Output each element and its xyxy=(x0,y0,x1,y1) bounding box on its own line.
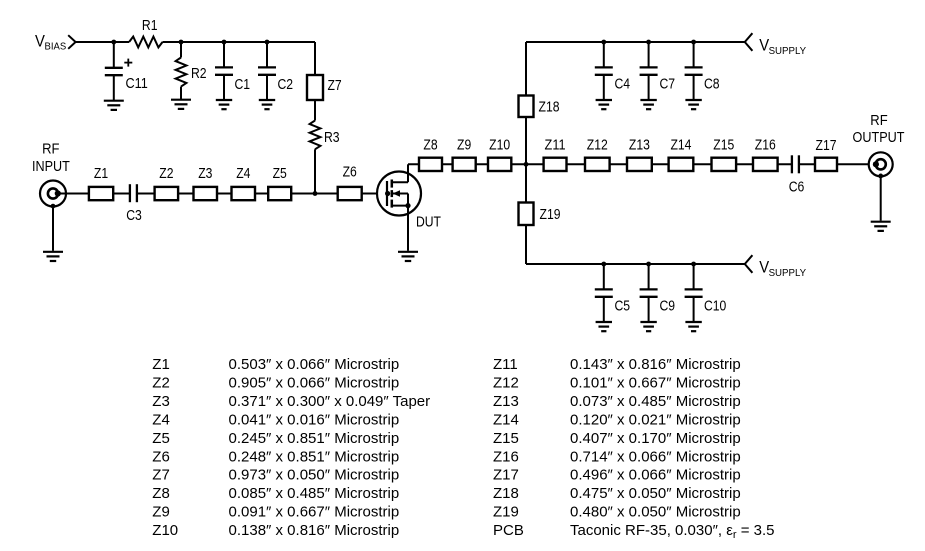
svg-text:PCB: PCB xyxy=(493,522,524,539)
svg-text:BIAS: BIAS xyxy=(45,42,67,53)
wire output row right of C6 xyxy=(799,163,876,165)
svg-text:Z1: Z1 xyxy=(94,166,108,182)
junction C1 node xyxy=(222,40,227,45)
microstrip Z18 xyxy=(519,96,534,118)
junction Z18/Z19 node xyxy=(524,162,529,167)
svg-text:0.101″ x 0.667″ Microstrip: 0.101″ x 0.667″ Microstrip xyxy=(570,375,741,392)
capacitor C4 xyxy=(595,42,613,100)
svg-text:C11: C11 xyxy=(126,76,148,92)
svg-text:Z3: Z3 xyxy=(198,166,212,182)
svg-text:C10: C10 xyxy=(704,298,726,314)
microstrip Z16 xyxy=(753,158,778,171)
DUT channel segments xyxy=(391,180,394,188)
microstrip Z14 xyxy=(669,158,694,171)
wire top VSUPPLY rail xyxy=(526,41,745,43)
svg-text:Z18: Z18 xyxy=(539,100,560,116)
wire output row left of C6 xyxy=(408,163,792,165)
svg-text:Z4: Z4 xyxy=(236,166,250,182)
RF input connector J1 xyxy=(40,181,66,207)
svg-text:0.073″ x 0.485″ Microstrip: 0.073″ x 0.485″ Microstrip xyxy=(570,393,741,410)
svg-text:Z3: Z3 xyxy=(152,393,170,410)
junction C9 node xyxy=(646,262,651,267)
wire Z19 to bottom supply rail xyxy=(525,225,527,264)
wire input connector to ground xyxy=(52,206,54,251)
svg-text:C6: C6 xyxy=(789,179,805,195)
microstrip Z17 xyxy=(815,158,837,171)
DUT source connection xyxy=(392,205,408,207)
wire input row left xyxy=(58,193,130,195)
svg-text:0.973″ x 0.050″ Microstrip: 0.973″ x 0.050″ Microstrip xyxy=(229,467,400,484)
DUT drain connection xyxy=(392,181,408,183)
junction C11 node xyxy=(111,40,116,45)
svg-text:Z6: Z6 xyxy=(343,165,357,181)
svg-text:Z11: Z11 xyxy=(493,356,518,373)
wire R3 to input line xyxy=(314,149,316,193)
microstrip Z12 xyxy=(585,158,610,171)
wire bottom VSUPPLY rail xyxy=(526,263,745,265)
microstrip Z2 xyxy=(155,187,179,200)
svg-text:C9: C9 xyxy=(660,298,676,314)
capacitor C10 xyxy=(685,264,703,322)
capacitor C7 xyxy=(640,42,658,100)
resistor R2 xyxy=(176,58,187,87)
svg-text:Z7: Z7 xyxy=(152,467,170,484)
svg-text:Z12: Z12 xyxy=(587,138,608,154)
svg-text:INPUT: INPUT xyxy=(32,159,70,175)
microstrip Z1 xyxy=(89,187,113,200)
wire supply rail to Z18 xyxy=(525,42,527,96)
svg-text:Z15: Z15 xyxy=(493,430,519,447)
svg-text:Z16: Z16 xyxy=(755,138,776,154)
junction C7 node xyxy=(646,40,651,45)
svg-text:0.120″ x 0.021″ Microstrip: 0.120″ x 0.021″ Microstrip xyxy=(570,412,741,429)
svg-text:Taconic RF-35, 0.030″, εr = 3.: Taconic RF-35, 0.030″, εr = 3.5 xyxy=(570,522,775,541)
DUT gate bar xyxy=(386,181,388,206)
svg-text:Z2: Z2 xyxy=(159,166,173,182)
wire output connector to ground xyxy=(880,177,882,221)
ground R2 xyxy=(171,100,191,109)
svg-text:Z14: Z14 xyxy=(670,138,691,154)
ground C1 xyxy=(216,100,232,109)
svg-text:0.475″ x 0.050″ Microstrip: 0.475″ x 0.050″ Microstrip xyxy=(570,485,741,502)
wire VBIAS rail left xyxy=(76,41,130,43)
svg-text:R1: R1 xyxy=(142,18,158,34)
microstrip Z19 xyxy=(519,203,534,226)
resistor R2 lead lower xyxy=(180,87,182,100)
ground RF output xyxy=(871,222,891,231)
microstrip Z7 xyxy=(307,75,323,100)
svg-text:Z17: Z17 xyxy=(816,138,837,154)
svg-text:Z12: Z12 xyxy=(493,375,519,392)
svg-text:0.905″ x 0.066″ Microstrip: 0.905″ x 0.066″ Microstrip xyxy=(229,375,400,392)
microstrip Z10 xyxy=(488,158,511,171)
capacitor C3 xyxy=(129,184,131,202)
svg-text:0.371″ x 0.300″ x 0.049″ Taper: 0.371″ x 0.300″ x 0.049″ Taper xyxy=(229,393,431,410)
svg-text:0.714″ x 0.066″ Microstrip: 0.714″ x 0.066″ Microstrip xyxy=(570,448,741,465)
VBIAS terminal chevron xyxy=(68,35,75,49)
svg-text:V: V xyxy=(35,32,45,50)
microstrip Z11 xyxy=(544,158,567,171)
microstrip Z15 xyxy=(712,158,737,171)
svg-text:Z14: Z14 xyxy=(493,412,519,429)
svg-text:Z19: Z19 xyxy=(493,504,519,521)
VSUPPLY terminal chevron bottom xyxy=(745,255,753,273)
svg-text:Z13: Z13 xyxy=(629,138,650,154)
capacitor C5 xyxy=(595,264,613,322)
svg-text:Z5: Z5 xyxy=(273,166,287,182)
svg-text:C1: C1 xyxy=(235,77,251,93)
svg-text:Z7: Z7 xyxy=(328,78,342,94)
wire VBIAS rail right xyxy=(163,41,316,43)
resistor R2 lead xyxy=(180,42,182,58)
svg-text:Z1: Z1 xyxy=(152,356,170,373)
junction DUT source xyxy=(405,203,410,208)
junction DUT gate xyxy=(385,191,390,196)
junction C10 node xyxy=(691,262,696,267)
ground DUT xyxy=(398,252,418,261)
DUT body arrow xyxy=(393,193,409,195)
junction C2 node xyxy=(265,40,270,45)
svg-text:C2: C2 xyxy=(278,77,294,93)
wire Z18 to Z19 through node xyxy=(525,117,527,203)
svg-text:Z5: Z5 xyxy=(152,430,170,447)
svg-text:DUT: DUT xyxy=(416,215,441,231)
wire DUT source to ground xyxy=(407,206,409,251)
junction C8 node xyxy=(691,40,696,45)
svg-text:C5: C5 xyxy=(615,298,631,314)
svg-text:SUPPLY: SUPPLY xyxy=(769,46,807,57)
svg-text:Z10: Z10 xyxy=(152,522,178,539)
ground C11 xyxy=(104,101,124,110)
svg-text:Z9: Z9 xyxy=(152,504,170,521)
junction R2 node xyxy=(179,40,184,45)
ground C8 xyxy=(685,100,701,109)
svg-text:0.143″ x 0.816″ Microstrip: 0.143″ x 0.816″ Microstrip xyxy=(570,356,741,373)
capacitor C6 xyxy=(791,155,793,173)
svg-text:Z2: Z2 xyxy=(152,375,170,392)
resistor R1 xyxy=(129,37,162,48)
svg-text:R2: R2 xyxy=(191,66,207,82)
VSUPPLY terminal chevron top xyxy=(745,33,753,51)
svg-text:0.496″ x 0.066″ Microstrip: 0.496″ x 0.066″ Microstrip xyxy=(570,467,741,484)
svg-text:Z10: Z10 xyxy=(489,138,510,154)
svg-text:RF: RF xyxy=(870,113,888,129)
capacitor C1 xyxy=(215,42,233,100)
junction C5 node xyxy=(601,262,606,267)
svg-text:Z15: Z15 xyxy=(713,138,734,154)
svg-text:0.503″ x 0.066″ Microstrip: 0.503″ x 0.066″ Microstrip xyxy=(229,356,400,373)
svg-text:Z4: Z4 xyxy=(152,412,170,429)
svg-text:Z8: Z8 xyxy=(423,138,437,154)
junction C4 node xyxy=(601,40,606,45)
ground C4 xyxy=(596,100,612,109)
svg-text:Z8: Z8 xyxy=(152,485,170,502)
svg-text:RF: RF xyxy=(42,142,60,158)
microstrip Z13 xyxy=(627,158,652,171)
svg-text:C3: C3 xyxy=(126,208,142,224)
ground C7 xyxy=(640,100,656,109)
resistor R3 xyxy=(310,121,321,150)
svg-text:Z17: Z17 xyxy=(493,467,519,484)
junction R3 / input row xyxy=(313,191,318,196)
svg-text:0.091″ x 0.667″ Microstrip: 0.091″ x 0.667″ Microstrip xyxy=(229,504,400,521)
svg-text:C4: C4 xyxy=(615,76,631,92)
RF output connector J2 xyxy=(869,152,893,176)
svg-text:Z9: Z9 xyxy=(457,138,471,154)
wire input row right xyxy=(137,193,388,195)
svg-text:C7: C7 xyxy=(660,76,676,92)
wire rail to Z7 xyxy=(314,42,316,75)
transistor DUT xyxy=(377,172,421,216)
svg-text:0.480″ x 0.050″ Microstrip: 0.480″ x 0.050″ Microstrip xyxy=(570,504,741,521)
svg-text:0.245″ x 0.851″ Microstrip: 0.245″ x 0.851″ Microstrip xyxy=(229,430,400,447)
wire Z7 to R3 xyxy=(314,100,316,121)
capacitor C8 xyxy=(685,42,703,100)
ground C2 xyxy=(259,100,275,109)
svg-text:Z6: Z6 xyxy=(152,448,170,465)
C11 plus sign xyxy=(124,62,132,64)
svg-text:0.407″ x 0.170″ Microstrip: 0.407″ x 0.170″ Microstrip xyxy=(570,430,741,447)
microstrip Z9 xyxy=(453,158,476,171)
svg-text:R3: R3 xyxy=(324,130,340,146)
svg-text:0.041″ x 0.016″ Microstrip: 0.041″ x 0.016″ Microstrip xyxy=(229,412,400,429)
svg-text:0.138″ x 0.816″ Microstrip: 0.138″ x 0.816″ Microstrip xyxy=(229,522,400,539)
svg-text:C8: C8 xyxy=(704,76,720,92)
microstrip Z5 xyxy=(268,187,291,200)
svg-text:Z11: Z11 xyxy=(545,138,566,154)
ground C9 xyxy=(640,322,656,331)
capacitor C9 xyxy=(640,264,658,322)
ground RF input xyxy=(43,252,63,261)
capacitor C2 xyxy=(258,42,276,100)
microstrip Z4 xyxy=(232,187,256,200)
svg-text:SUPPLY: SUPPLY xyxy=(769,268,807,279)
ground C5 xyxy=(596,322,612,331)
svg-text:Z18: Z18 xyxy=(493,485,519,502)
svg-text:Z19: Z19 xyxy=(540,207,561,223)
svg-text:0.085″ x 0.485″ Microstrip: 0.085″ x 0.485″ Microstrip xyxy=(229,485,400,502)
microstrip Z8 xyxy=(419,158,442,171)
microstrip Z3 xyxy=(194,187,218,200)
svg-text:0.248″ x 0.851″ Microstrip: 0.248″ x 0.851″ Microstrip xyxy=(229,448,400,465)
ground C10 xyxy=(685,322,701,331)
svg-text:Z13: Z13 xyxy=(493,393,519,410)
microstrip Z6 xyxy=(338,187,362,200)
svg-text:Z16: Z16 xyxy=(493,448,519,465)
svg-text:OUTPUT: OUTPUT xyxy=(853,130,905,146)
capacitor C11 xyxy=(113,42,115,68)
